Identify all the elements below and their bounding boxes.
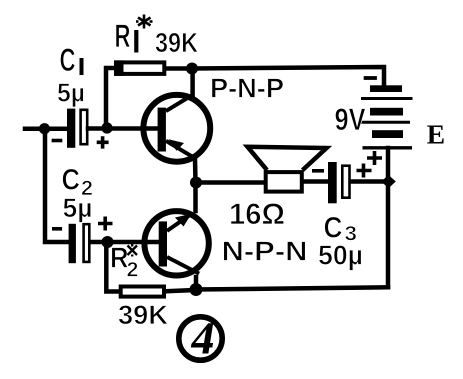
- svg-text:5µ: 5µ: [57, 78, 85, 108]
- resistor R1: [114, 60, 164, 76]
- node input junction: [39, 123, 50, 134]
- svg-text:C: C: [62, 164, 81, 197]
- svg-text:P-N-P: P-N-P: [210, 73, 284, 104]
- C3 plus sign upper: [367, 151, 382, 165]
- C2 minus sign: [52, 227, 62, 231]
- resistor R2: [121, 287, 164, 297]
- wire node C down to R2 left: [106, 242, 118, 292]
- node C (C2/R2/base): [102, 236, 114, 248]
- wire C3 to node D: [351, 179, 388, 184]
- battery plate long 3: [363, 146, 413, 149]
- wire node B to speaker: [196, 180, 264, 185]
- wire input branch down to C2: [45, 131, 68, 242]
- wire R1 right lead: [166, 66, 192, 71]
- wire PNP emitter to node B: [193, 159, 198, 183]
- wire node D down right side: [386, 182, 391, 288]
- capacitor C3: [328, 162, 350, 203]
- R2 asterisk: [128, 244, 138, 257]
- Q2 base bar: [159, 221, 167, 266]
- speaker cone: [248, 147, 327, 170]
- transistor Q1 PNP circle: [143, 95, 210, 162]
- Q2 collector diagonal: [167, 257, 199, 274]
- battery plate long 2: [360, 121, 410, 124]
- wire R2 right lead: [165, 290, 196, 291]
- C3 plus sign lower: [357, 164, 372, 178]
- battery plate short 1: [370, 85, 402, 92]
- svg-text:16Ω: 16Ω: [229, 198, 285, 231]
- svg-text:50µ: 50µ: [318, 240, 363, 271]
- capacitor C2: [69, 224, 90, 263]
- battery plate long 1: [361, 97, 413, 100]
- node A (C1/R1/base): [101, 122, 112, 133]
- wire PNP collector lead: [190, 69, 195, 96]
- wire C1 to PNP base: [88, 126, 158, 131]
- Q1 emitter arrow (points to base, PNP): [169, 139, 185, 151]
- svg-text:N-P-N: N-P-N: [222, 236, 308, 267]
- Q1 base bar: [158, 108, 166, 152]
- svg-text:E: E: [427, 119, 445, 150]
- transistor Q2 NPN circle: [144, 211, 208, 275]
- capacitor C1: [67, 109, 87, 148]
- wire top rail to battery: [192, 67, 384, 86]
- C2 plus sign: [98, 217, 113, 231]
- Q1 emitter diagonal: [166, 141, 196, 159]
- R1 asterisk: [136, 15, 153, 29]
- node R1/collector/top rail: [186, 63, 198, 75]
- figure number circle 4: [179, 317, 222, 360]
- wire speaker to C3: [304, 179, 328, 184]
- speaker magnet box: [266, 172, 302, 192]
- Q2 emitter diagonal (up, with arrow out): [167, 214, 192, 231]
- svg-text:9V: 9V: [335, 101, 366, 137]
- Q1 collector diagonal: [166, 95, 193, 112]
- wire bottom rail: [196, 287, 388, 289]
- svg-text:2: 2: [127, 258, 139, 282]
- battery plate short 2: [370, 108, 403, 116]
- svg-text:5µ: 5µ: [63, 193, 93, 223]
- C1 plus sign: [97, 136, 109, 148]
- battery plate short 3: [372, 130, 403, 138]
- speaker minus sign: [312, 169, 324, 173]
- battery B1 minus sign: [364, 76, 377, 80]
- wire node B to NPN collector: [193, 183, 198, 212]
- svg-text:39K: 39K: [118, 300, 169, 330]
- node B (emitters/speaker): [190, 177, 202, 189]
- svg-text:R: R: [115, 18, 131, 54]
- wire node A up to R1 left: [106, 68, 114, 129]
- svg-text:C: C: [60, 42, 76, 78]
- node D diamond (C3/battery/rail): [381, 175, 396, 188]
- wire input stub: [25, 126, 67, 131]
- wire battery plus to node D: [386, 148, 391, 182]
- wire C2 to NPN base: [91, 240, 159, 245]
- svg-text:39K: 39K: [155, 27, 198, 58]
- wire NPN emitter bottom lead: [194, 277, 199, 290]
- C1 minus sign: [52, 139, 63, 143]
- Q2 emitter arrow (points out, NPN): [175, 214, 192, 227]
- node bottom rail junction: [190, 283, 203, 296]
